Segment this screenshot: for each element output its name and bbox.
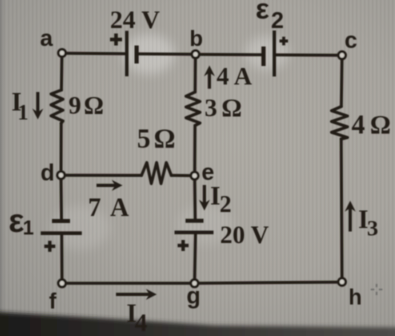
battery 24V plates — [127, 31, 137, 77]
svg-text:Ω: Ω — [222, 93, 242, 122]
wire 24V battery to node b — [137, 52, 193, 55]
current arrow 7A (right) — [97, 180, 123, 191]
node e — [191, 172, 198, 179]
wire 3ohm resistor to node e — [193, 126, 196, 174]
wire node d down to EMF1 battery — [60, 178, 64, 221]
node b — [192, 51, 199, 58]
svg-text:2: 2 — [220, 192, 232, 218]
wire node e down to 20V battery — [193, 179, 197, 221]
svg-text:d: d — [41, 160, 55, 186]
svg-text:4: 4 — [352, 109, 366, 139]
current arrow 4A (up) — [204, 66, 215, 89]
node g — [191, 280, 198, 287]
svg-text:24 V: 24 V — [110, 5, 160, 34]
svg-text:g: g — [187, 283, 201, 309]
svg-text:3: 3 — [367, 216, 378, 241]
wire 5ohm resistor to node e — [171, 174, 192, 177]
node f — [58, 280, 65, 287]
svg-text:Ω: Ω — [84, 93, 104, 120]
battery EMF1 plates — [41, 221, 82, 233]
resistor 5 ohm — [142, 163, 172, 184]
svg-text:a: a — [40, 25, 53, 51]
wire node g to node h — [198, 282, 340, 283]
wire node a down to 9ohm resistor — [60, 56, 64, 90]
node h — [338, 278, 345, 285]
plus sign of 24V battery — [110, 34, 122, 46]
plus sign of 20V battery — [178, 240, 189, 251]
node c — [338, 52, 345, 59]
node d — [57, 172, 64, 179]
battery EMF2 plates — [264, 31, 275, 77]
svg-text:ε: ε — [256, 0, 270, 26]
svg-text:5: 5 — [137, 123, 151, 153]
wire 20V battery to node g — [193, 233, 197, 281]
cursor crosshair artifact near node h — [371, 284, 383, 295]
wire node b down to 3ohm resistor — [194, 57, 197, 92]
svg-text:Ω: Ω — [370, 110, 391, 139]
current arrow I2 (down) — [199, 185, 210, 211]
plus sign of EMF2 battery — [280, 37, 289, 46]
svg-text:h: h — [349, 285, 362, 310]
wire 9ohm resistor to node d — [60, 123, 63, 173]
resistor 9 ohm — [51, 90, 63, 123]
wire EMF2 battery to node c — [275, 53, 341, 56]
svg-text:9: 9 — [69, 91, 82, 120]
current arrow I3 (up) — [345, 201, 356, 232]
wire 4ohm resistor to node h — [340, 139, 344, 280]
svg-text:1: 1 — [18, 99, 29, 124]
svg-text:Ω: Ω — [154, 123, 176, 153]
wire a to 24V battery — [64, 52, 126, 56]
node a — [58, 49, 65, 56]
battery 20V plates — [175, 221, 214, 233]
svg-text:3: 3 — [205, 93, 218, 122]
svg-text:1: 1 — [23, 218, 34, 240]
current arrow I4 (right) — [116, 289, 157, 300]
wire node c down to 4ohm resistor — [340, 58, 344, 107]
svg-text:4: 4 — [135, 310, 148, 336]
resistor 3 ohm — [186, 92, 200, 126]
wire node b to EMF2 battery — [197, 53, 262, 56]
resistor 4 ohm — [332, 107, 348, 140]
svg-text:7 A: 7 A — [88, 193, 131, 222]
plus sign of EMF1 battery — [44, 241, 55, 252]
svg-text:f: f — [49, 289, 57, 314]
current arrow I1 (down) — [32, 92, 43, 119]
wire EMF1 battery to node f — [60, 233, 63, 281]
wire node d to 5ohm resistor — [64, 174, 142, 177]
svg-text:c: c — [345, 27, 358, 53]
wire node f to node g — [65, 282, 192, 285]
svg-text:b: b — [190, 26, 203, 51]
svg-text:2: 2 — [271, 7, 284, 33]
svg-text:20 V: 20 V — [220, 222, 269, 249]
svg-text:4 A: 4 A — [217, 64, 252, 91]
